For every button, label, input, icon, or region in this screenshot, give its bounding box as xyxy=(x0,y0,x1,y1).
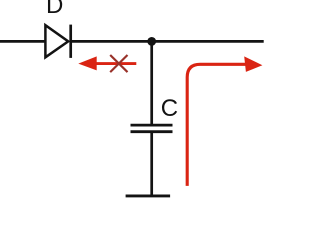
wire (cathode to right end) xyxy=(71,40,264,43)
diode D cathode bar xyxy=(69,25,72,58)
capacitor C top plate xyxy=(131,124,173,127)
diode D (triangle) xyxy=(45,25,68,57)
wire (capacitor to ground bar) xyxy=(150,132,153,196)
wire (node down to capacitor) xyxy=(150,41,153,125)
X mark (blocked) xyxy=(110,55,127,72)
svg-text:D: D xyxy=(46,0,63,19)
capacitor C bottom plate xyxy=(131,130,173,133)
current path arrow head xyxy=(244,56,262,72)
wire (left anode segment) xyxy=(0,40,45,43)
node (junction dot) xyxy=(147,37,156,46)
ground bar xyxy=(126,194,171,197)
svg-text:C: C xyxy=(161,95,178,122)
current path arrow (red, curved up and to the right) xyxy=(187,64,245,186)
blocked current arrow head xyxy=(78,56,96,70)
blocked current arrow (red, pointing left) shaft xyxy=(93,62,136,65)
